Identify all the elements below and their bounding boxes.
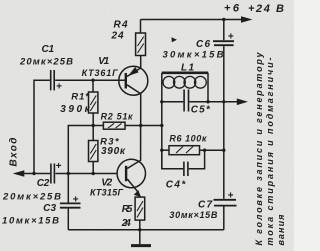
capacitor C2	[51, 164, 55, 184]
wire output	[208, 101, 238, 103]
transistor V2	[117, 159, 145, 187]
capacitor C7	[214, 200, 237, 206]
wire V1 base	[55, 79, 125, 81]
ground	[139, 230, 141, 244]
inductor L1	[161, 73, 163, 169]
capacitor C4	[162, 150, 183, 169]
output arrow	[237, 99, 248, 106]
resistor R3	[92, 126, 94, 141]
resistor R2	[103, 122, 125, 129]
wire bottom rail	[68, 229, 224, 231]
resistor R5	[135, 197, 145, 220]
wire V2 base	[56, 173, 118, 175]
input arrow	[13, 170, 24, 177]
wire top rail +24	[141, 19, 243, 21]
resistor R6	[162, 149, 169, 151]
wire input	[23, 173, 50, 175]
wire R4 top lead	[140, 20, 142, 34]
node +24 arrow	[241, 16, 253, 23]
capacitor C6	[213, 41, 234, 45]
wire R2 row	[68, 126, 103, 174]
capacitor C1	[34, 80, 50, 173]
small artifact arrow	[172, 37, 178, 42]
resistor R4	[136, 33, 146, 56]
wire right bus mid	[223, 102, 225, 199]
transistor V1	[119, 66, 148, 95]
wire right bus top	[223, 20, 225, 41]
capacitor C5	[162, 101, 208, 103]
wire R4 bottom lead	[140, 56, 142, 69]
capacitor C3	[67, 174, 69, 203]
resistor R1	[92, 80, 94, 92]
